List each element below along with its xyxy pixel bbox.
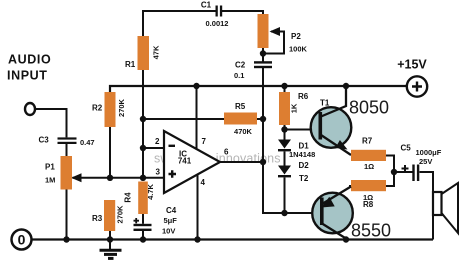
svg-text:1M: 1M [45, 176, 55, 185]
wire R6 top [284, 86, 286, 92]
terminal +15V [407, 76, 427, 96]
svg-text:1K: 1K [290, 103, 299, 113]
svg-text:0.47: 0.47 [80, 138, 95, 147]
wire T1 base [285, 129, 321, 131]
svg-text:1Ω: 1Ω [364, 162, 374, 171]
resistor R3 [104, 200, 115, 231]
P1 wiper arrowhead [71, 173, 82, 182]
resistor R6 [279, 92, 290, 125]
svg-text:R2: R2 [92, 104, 103, 113]
wire pin4 ground [197, 175, 199, 240]
capacitor C1 [216, 6, 223, 17]
op-amp U1 IC741 [164, 131, 220, 193]
wire C5 to speaker [420, 172, 434, 240]
svg-text:0: 0 [18, 232, 26, 248]
capacitor C4 [134, 224, 152, 231]
resistor R1 [138, 36, 150, 70]
transistor Q1 T1 8050 [311, 86, 352, 155]
wire C2 output column [263, 68, 285, 213]
node pin7 rail junction [193, 83, 199, 89]
wire R4 to C4 [142, 214, 144, 224]
node wiper bias junction [107, 175, 113, 181]
potentiometer P2 [258, 14, 269, 48]
svg-text:47K: 47K [152, 45, 161, 59]
wire R7 R8 to output node [386, 156, 394, 187]
resistor R8 [351, 180, 386, 191]
svg-text:C4: C4 [166, 206, 177, 215]
wire +15V rail [110, 86, 407, 92]
node output junction [260, 159, 266, 165]
op-amp minus sign [169, 145, 176, 147]
node P2 bottom junction [260, 50, 266, 56]
wire diode chain [284, 125, 286, 213]
node T1 base junction [281, 126, 287, 132]
svg-text:100K: 100K [289, 45, 308, 54]
node T2 collector rail junction [343, 236, 349, 242]
svg-text:270K: 270K [117, 98, 126, 117]
node pin2 junction [140, 145, 146, 151]
svg-text:1N4148: 1N4148 [289, 150, 315, 159]
svg-text:P1: P1 [45, 163, 55, 172]
transistor Q2 T2 8550 [312, 187, 353, 240]
node P1 rail junction [63, 236, 69, 242]
P2 wiper arrowhead [270, 27, 281, 36]
svg-text:10V: 10V [162, 227, 175, 236]
svg-text:R6: R6 [298, 92, 309, 101]
label AUDIO INPUT [7, 53, 51, 83]
svg-text:3: 3 [156, 168, 161, 177]
svg-text:C2: C2 [235, 60, 246, 69]
resistor R4 [138, 182, 148, 215]
wire pin3 wiper line [73, 177, 165, 179]
terminal 0 [12, 230, 32, 250]
wire ground rail [32, 238, 433, 240]
svg-text:8050: 8050 [349, 98, 389, 118]
svg-text:0.0012: 0.0012 [206, 19, 229, 28]
svg-text:T1: T1 [320, 99, 330, 108]
capacitor C2 [254, 61, 272, 68]
svg-text:1000μF: 1000μF [416, 148, 442, 157]
capacitor C5 [412, 165, 419, 182]
svg-text:C1: C1 [201, 1, 212, 10]
diode D2 [278, 166, 291, 178]
node T1 collector rail junction [343, 83, 349, 89]
svg-text:2: 2 [155, 137, 160, 146]
node C4 rail junction [140, 236, 146, 242]
svg-text:T2: T2 [299, 174, 309, 183]
svg-text:C3: C3 [39, 136, 50, 145]
svg-text:R5: R5 [235, 102, 246, 111]
svg-text:25V: 25V [419, 157, 432, 166]
svg-text:R1: R1 [125, 60, 136, 69]
node feedback right [260, 116, 266, 122]
node R4 top junction [140, 175, 146, 181]
node R3 rail junction [107, 236, 113, 242]
wire C4 bottom [142, 231, 144, 240]
terminal audio input [25, 103, 35, 115]
svg-text:270K: 270K [116, 205, 125, 224]
C5 plus sign [402, 165, 409, 172]
svg-text:741: 741 [178, 157, 192, 166]
wire R1 column [142, 70, 144, 178]
wire feedback line [143, 118, 263, 120]
diode D1 [278, 140, 291, 152]
ground [100, 240, 122, 259]
svg-text:7: 7 [202, 137, 207, 146]
wire P2 to C2 [262, 48, 264, 62]
potentiometer P1 [61, 156, 73, 190]
svg-text:C5: C5 [401, 144, 412, 153]
svg-text:INPUT: INPUT [7, 69, 48, 83]
svg-text:P2: P2 [291, 32, 301, 41]
wire C3 to P1 [66, 144, 68, 156]
node feedback left [140, 116, 146, 122]
wire pin2 [143, 147, 164, 149]
svg-text:AUDIO: AUDIO [8, 53, 51, 67]
svg-text:4.7K: 4.7K [146, 183, 155, 199]
resistor R2 [105, 92, 116, 127]
svg-text:5μF: 5μF [164, 216, 178, 225]
C4 plus sign [134, 218, 140, 223]
svg-text:R7: R7 [362, 137, 373, 146]
svg-text:D2: D2 [299, 161, 310, 170]
resistor R7 [351, 150, 386, 161]
wire pin6 output [220, 161, 263, 163]
wire P1 bottom [66, 190, 68, 240]
svg-text:8550: 8550 [351, 221, 391, 241]
node output emitter junction [391, 169, 397, 175]
svg-text:6: 6 [224, 148, 229, 157]
wire output to C5 [394, 171, 413, 173]
svg-text:+15V: +15V [397, 58, 427, 72]
node R6 rail junction [281, 83, 287, 89]
resistor R5 [224, 113, 257, 125]
label IC 741 [178, 150, 192, 166]
op-amp plus sign [169, 170, 177, 178]
wire R8 left emitter [349, 185, 351, 187]
svg-text:0.1: 0.1 [234, 71, 244, 80]
svg-text:4: 4 [201, 178, 206, 187]
wire P2 wiper loop [263, 32, 284, 54]
speaker LS1 [433, 183, 458, 233]
wire top C1 line [143, 11, 263, 36]
svg-text:R8: R8 [363, 200, 374, 209]
svg-text:R3: R3 [92, 214, 103, 223]
wire R2 to wiper node [109, 127, 111, 178]
node pin4 rail junction [194, 236, 200, 242]
svg-text:R4: R4 [124, 192, 133, 203]
wire R3 bottom [109, 231, 111, 240]
node T2 base junction [281, 210, 287, 216]
capacitor C3 [58, 137, 77, 144]
wire pin7 supply [196, 86, 198, 150]
wire input to C3 [35, 109, 67, 137]
svg-text:470K: 470K [234, 127, 253, 136]
wire T2 base [285, 212, 322, 214]
